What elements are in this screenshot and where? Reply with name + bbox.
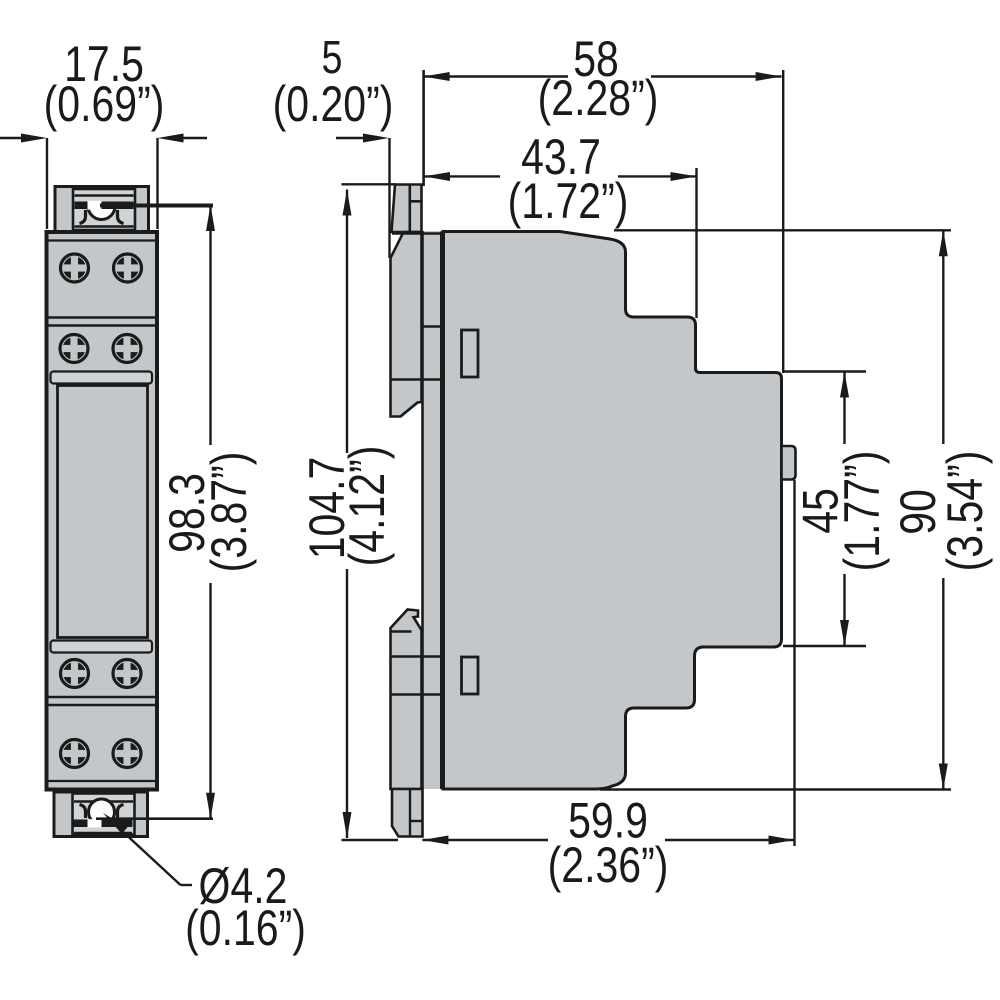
dimension 59.9 (2.36"): [422, 480, 794, 893]
front bottom clip inner plate: [73, 794, 135, 835]
front bottom clip bottom line: [74, 832, 132, 835]
svg-text:(2.36”): (2.36”): [548, 837, 669, 893]
svg-text:(2.28”): (2.28”): [538, 70, 659, 126]
screw C1: [61, 660, 89, 688]
front bottom clip top line: [74, 800, 133, 803]
front top clip top line: [75, 194, 134, 197]
svg-text:(3.87”): (3.87”): [201, 452, 257, 573]
side slot lower: [462, 657, 479, 694]
front top clip inner plate: [73, 189, 135, 230]
dimension 43.7 (1.72"): [424, 129, 697, 318]
svg-text:(1.77”): (1.77”): [834, 451, 890, 572]
groove upper: [47, 316, 156, 318]
window panel: [58, 386, 148, 638]
front top clip wings: [80, 210, 86, 224]
dimension 5 (0.20"): [273, 31, 394, 258]
screw B1: [60, 335, 88, 363]
svg-text:(0.20”): (0.20”): [273, 76, 394, 132]
side flange lower hook and plate: [391, 610, 422, 790]
upper step strip: [51, 372, 153, 384]
svg-text:(4.12”): (4.12”): [339, 446, 395, 567]
screw D2: [113, 740, 141, 768]
front bottom clip outer block: [54, 792, 148, 837]
screw A2: [114, 254, 142, 282]
svg-text:(0.69”): (0.69”): [44, 76, 165, 132]
lower step strip: [51, 641, 153, 653]
side body outline: [443, 232, 782, 790]
front top clip slot bar: [75, 202, 134, 210]
screw B2: [113, 335, 141, 363]
dimension 45 (1.77"): [783, 372, 890, 647]
side right tab: [782, 446, 796, 480]
dimension 90 (3.54"): [600, 230, 993, 789]
svg-text:(1.72”): (1.72”): [508, 173, 629, 229]
side slot upper: [462, 330, 479, 377]
front body outline: [47, 232, 158, 790]
screw C2: [113, 660, 141, 688]
side flange upper plate: [391, 232, 422, 417]
groove lower: [47, 696, 156, 698]
front top clip outer block: [55, 187, 149, 233]
front top clip hole: [88, 206, 115, 219]
side body left edge thick: [440, 232, 445, 790]
screw A1: [61, 254, 89, 282]
svg-text:5: 5: [322, 31, 343, 82]
front bottom clip hole: [89, 799, 115, 825]
front body top edge line: [47, 239, 156, 241]
dimension 17.5 (0.69"): [0, 36, 207, 229]
svg-text:(0.16”): (0.16”): [185, 900, 306, 956]
dimension 104.7 (4.12"): [299, 184, 398, 840]
front bottom clip slot bar: [74, 820, 133, 828]
dimension leader Ø4.2 (0.16"): [103, 813, 306, 956]
front bottom clip wings: [80, 805, 86, 819]
side flange top hook: [392, 185, 422, 233]
screw D1: [61, 740, 89, 768]
front top clip bottom line: [75, 225, 134, 228]
dimension 98.3 (3.87"): [96, 205, 257, 819]
bottom edge line: [47, 780, 156, 782]
side flange backplate strip: [422, 231, 444, 789]
dimension 58 (2.28"): [424, 31, 784, 373]
side flange bottom foot: [392, 789, 423, 837]
svg-text:(3.54”): (3.54”): [937, 451, 993, 572]
